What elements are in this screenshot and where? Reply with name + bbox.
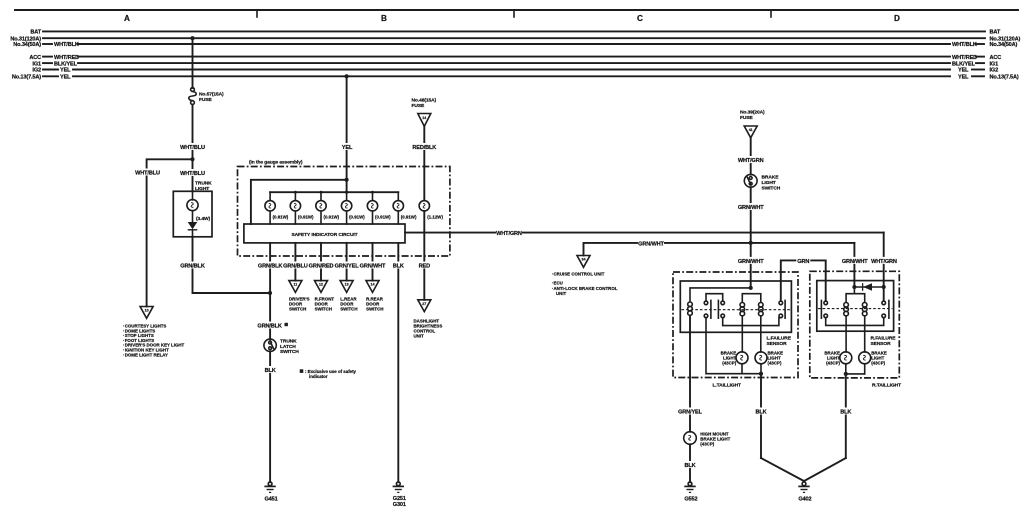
svg-text:LATCH: LATCH bbox=[280, 344, 296, 350]
label WHT/BLU (branch) bbox=[135, 169, 160, 177]
svg-text:SWITCH: SWITCH bbox=[289, 307, 306, 312]
R sensor GRN/WHT bracket bbox=[846, 294, 865, 302]
wire trunk light to GRN/BLK junction bbox=[193, 237, 271, 293]
svg-text:C: C bbox=[637, 14, 643, 23]
wire R taillight BLK down bbox=[845, 374, 847, 458]
svg-text:SWITCH: SWITCH bbox=[366, 307, 383, 312]
svg-text:(0.91W): (0.91W) bbox=[401, 214, 417, 219]
node junction on No.31 bus bbox=[190, 36, 194, 40]
connector arrow R.front door switch bbox=[315, 281, 335, 312]
wire RED output to dashlight unit bbox=[423, 211, 425, 300]
label BLK bbox=[263, 366, 277, 374]
svg-text:GRN/WHT: GRN/WHT bbox=[638, 242, 664, 248]
high mount brake light bbox=[684, 432, 731, 447]
R sensor switch right bbox=[882, 300, 889, 318]
svg-text:YEL: YEL bbox=[958, 68, 969, 74]
node YEL branch junction bbox=[345, 178, 349, 182]
label GRN/WHT above R box bbox=[842, 257, 868, 265]
svg-text:SAFETY INDICATOR CIRCUIT: SAFETY INDICATOR CIRCUIT bbox=[291, 232, 357, 238]
node R bulb bottom junction bbox=[844, 372, 848, 376]
R brake bulb 2 bbox=[859, 351, 887, 366]
brake light switch bbox=[744, 174, 780, 191]
wire GRN/BLU output bbox=[294, 243, 296, 281]
svg-text:FUSE: FUSE bbox=[412, 103, 425, 109]
R bulb 2 wire bbox=[864, 316, 866, 352]
L brake bulb 1 bbox=[721, 351, 748, 366]
svg-text:(43CP): (43CP) bbox=[871, 361, 885, 366]
indicator bulb 5 bbox=[367, 191, 391, 224]
svg-text:· DOME LIGHT RELAY: · DOME LIGHT RELAY bbox=[123, 352, 168, 357]
svg-text:(1.12W): (1.12W) bbox=[427, 214, 443, 219]
R sensor coil 1 bbox=[844, 303, 849, 316]
svg-text:R.FAILURE: R.FAILURE bbox=[871, 336, 897, 342]
diode in trunk light bbox=[188, 211, 198, 237]
diode in R sensor bbox=[854, 283, 883, 291]
label YEL bbox=[340, 143, 354, 151]
svg-text:ACC: ACC bbox=[990, 55, 1002, 61]
R sensor coil 2 bbox=[862, 303, 867, 316]
svg-text:No.13(7.5A): No.13(7.5A) bbox=[12, 75, 41, 81]
label WHT/GRN vertical bbox=[871, 257, 897, 265]
svg-text:WHT/RED: WHT/RED bbox=[54, 55, 79, 61]
svg-text:GRN/BLK: GRN/BLK bbox=[257, 324, 282, 330]
svg-text:SWITCH: SWITCH bbox=[280, 349, 299, 355]
wire fuse48 to bulb 7 bbox=[423, 126, 425, 200]
indicator bulb 2 bbox=[290, 191, 314, 224]
svg-text:RED/BLK: RED/BLK bbox=[412, 145, 436, 151]
svg-text:L.TAILLIGHT: L.TAILLIGHT bbox=[713, 382, 742, 388]
label WHT/GRN bbox=[738, 156, 764, 164]
svg-text:41: 41 bbox=[749, 128, 753, 132]
svg-text:(43CP): (43CP) bbox=[722, 361, 736, 366]
node GRN/BLK junction bbox=[268, 291, 272, 295]
indicator bulb 3 bbox=[316, 191, 340, 224]
wire branch left to courtesy feed bbox=[147, 159, 193, 306]
svg-text:IG1: IG1 bbox=[32, 61, 41, 67]
svg-text:GRN/WHT: GRN/WHT bbox=[842, 259, 868, 265]
node L bulb bottom junction bbox=[759, 372, 763, 376]
svg-text:GRN/BLK: GRN/BLK bbox=[180, 264, 205, 270]
indicator bulb 7 dashlight bbox=[419, 201, 443, 220]
node L sensor junction bbox=[749, 286, 753, 290]
R sensor bottom wire bbox=[826, 318, 884, 326]
L sensor top feed wire bbox=[690, 288, 751, 302]
svg-text:WHT/GRN: WHT/GRN bbox=[496, 231, 522, 237]
indicator bulb 4 bbox=[341, 192, 365, 224]
wire latch to ground G451 bbox=[269, 352, 271, 483]
svg-text:UNIT: UNIT bbox=[414, 334, 425, 339]
label GRN/BLK bbox=[180, 262, 205, 270]
label GRN/RED bbox=[309, 262, 334, 270]
R brake bulb 1 bbox=[824, 351, 851, 366]
wire brake switch to L sensor bbox=[750, 187, 752, 288]
svg-text:indicator: indicator bbox=[309, 374, 328, 379]
L sensor coil 1 bbox=[688, 302, 693, 315]
safety indicator circuit box bbox=[244, 224, 405, 243]
node WHT/BLU branch junction bbox=[190, 157, 194, 161]
trunk light box bbox=[173, 191, 212, 237]
label BLK bbox=[839, 408, 853, 416]
svg-text:GRN: GRN bbox=[797, 259, 809, 265]
R bulb 1 wire bbox=[845, 316, 847, 352]
fuse No.39(20A) label bbox=[740, 110, 765, 121]
ground G451 bbox=[264, 482, 277, 503]
wire YEL branch to safety circuit bbox=[251, 180, 347, 224]
svg-text:GRN/YEL: GRN/YEL bbox=[678, 410, 703, 416]
ground G402 bbox=[798, 482, 811, 503]
svg-text:WHT/BLK: WHT/BLK bbox=[952, 42, 977, 48]
wire L taillight BLK down bbox=[760, 374, 762, 458]
svg-text:SENSOR: SENSOR bbox=[767, 341, 788, 347]
label GRN/BLU bbox=[283, 262, 308, 270]
L sensor coil 2 bbox=[740, 303, 745, 316]
svg-text:(43CP): (43CP) bbox=[826, 361, 840, 366]
svg-text:BLK: BLK bbox=[265, 368, 276, 374]
L sensor switch 2 bbox=[779, 300, 785, 318]
label GRN/WHT bbox=[360, 262, 386, 270]
svg-text:GRN/YEL: GRN/YEL bbox=[335, 264, 360, 270]
svg-text:(In the gauge assembly): (In the gauge assembly) bbox=[249, 160, 303, 166]
R sensor switch left bbox=[821, 300, 827, 318]
bus wire ACC WHT/RED bbox=[29, 55, 1001, 61]
L bulb 1 wire bbox=[741, 316, 743, 352]
label R.FAILURE SENSOR bbox=[871, 336, 897, 347]
R bulb bottom bus bbox=[845, 364, 847, 374]
indicator bulb 1 bbox=[265, 192, 289, 224]
svg-text:GRN/BLU: GRN/BLU bbox=[283, 264, 308, 270]
svg-text:B: B bbox=[381, 14, 387, 23]
wire GRN/BLK output bbox=[269, 243, 271, 340]
L sensor GRN/WHT bracket bbox=[742, 294, 761, 302]
svg-text:· CRUISE CONTROL UNIT: · CRUISE CONTROL UNIT bbox=[552, 271, 605, 276]
L bulb bottom bus bbox=[741, 364, 743, 374]
wire GRN/WHT output bbox=[372, 243, 374, 281]
svg-text:GRN/RED: GRN/RED bbox=[309, 264, 334, 270]
L sensor connector dashed line bbox=[682, 309, 791, 311]
wire from No.31 bus down to fuse No.57 bbox=[192, 38, 194, 88]
svg-text:(0.91W): (0.91W) bbox=[298, 214, 314, 219]
label BLK bbox=[683, 461, 697, 469]
svg-text:BLK: BLK bbox=[755, 410, 766, 416]
L sensor switch 1 bbox=[704, 294, 724, 319]
R sensor connector dashed line bbox=[818, 308, 892, 310]
svg-text:GRN/WHT: GRN/WHT bbox=[360, 264, 386, 270]
svg-text:No.48(15A): No.48(15A) bbox=[412, 98, 437, 104]
bus wire IG2 YEL bbox=[32, 68, 998, 74]
gauge assembly dashed box bbox=[238, 167, 450, 257]
svg-text:(0.91W): (0.91W) bbox=[273, 214, 289, 219]
top border ruler line bbox=[15, 10, 1018, 17]
svg-text:UNIT: UNIT bbox=[556, 291, 567, 296]
svg-text:WHT/BLU: WHT/BLU bbox=[180, 145, 205, 151]
wire fuse57 to WHT/BLU junction bbox=[192, 105, 194, 160]
svg-text:No.34(50A): No.34(50A) bbox=[990, 42, 1018, 48]
label WHT/BLU bbox=[180, 143, 205, 151]
label RED/BLK bbox=[412, 143, 436, 151]
svg-text:TRUNK: TRUNK bbox=[280, 339, 297, 345]
bus wire BAT bbox=[30, 30, 1001, 36]
connector arrow cruise control bbox=[577, 256, 590, 268]
connector arrow driver's door switch bbox=[289, 281, 310, 312]
trunk latch switch bbox=[264, 339, 299, 356]
ground G552 bbox=[684, 482, 697, 503]
svg-text:IG2: IG2 bbox=[32, 68, 41, 74]
svg-text:FUSE: FUSE bbox=[740, 115, 753, 121]
svg-text:BRAKE: BRAKE bbox=[762, 175, 780, 181]
svg-text:34: 34 bbox=[582, 258, 586, 262]
svg-text:D: D bbox=[894, 14, 900, 23]
courtesy lights list bbox=[123, 324, 185, 358]
svg-text:L.FAILURE: L.FAILURE bbox=[767, 336, 792, 342]
svg-text:R.TAILLIGHT: R.TAILLIGHT bbox=[872, 382, 901, 388]
svg-text:(3.4W): (3.4W) bbox=[196, 216, 211, 222]
label GRN bbox=[796, 257, 810, 265]
svg-text:ACC: ACC bbox=[29, 55, 41, 61]
svg-text:12: 12 bbox=[319, 283, 323, 287]
bulb top bus in gauge bbox=[270, 191, 398, 193]
wire WHT/GRN down into R sensor bbox=[883, 233, 885, 301]
L taillight dashed box bbox=[673, 272, 798, 378]
label GRN/WHT bbox=[738, 203, 764, 211]
svg-text:BAT: BAT bbox=[990, 30, 1001, 36]
svg-text:BLK: BLK bbox=[393, 264, 404, 270]
L failure sensor box bbox=[680, 281, 791, 332]
svg-text:No.39(20A): No.39(20A) bbox=[740, 110, 765, 116]
svg-text:WHT/BLU: WHT/BLU bbox=[180, 171, 205, 177]
wire BLK output to ground bbox=[397, 243, 399, 482]
label L.FAILURE SENSOR bbox=[767, 336, 792, 347]
trunk light label bbox=[195, 181, 212, 193]
L sensor bottom wire 2 bbox=[723, 318, 781, 326]
connector arrow courtesy lights feed bbox=[140, 307, 153, 319]
svg-text:SWITCH: SWITCH bbox=[340, 307, 357, 312]
svg-text:BAT: BAT bbox=[30, 30, 41, 36]
L sensor bottom wire 1 bbox=[706, 318, 761, 374]
node cruise line junction bbox=[749, 241, 753, 245]
label WHT/GRN bbox=[496, 229, 522, 237]
wire GRN/RED output bbox=[320, 243, 322, 281]
fuse No.57(15A) bbox=[189, 88, 224, 105]
svg-text:(0.91W): (0.91W) bbox=[349, 214, 365, 219]
svg-text:G301: G301 bbox=[393, 502, 406, 508]
connector arrow L.rear door switch bbox=[340, 281, 357, 312]
wire V to ground G402 bbox=[761, 458, 846, 481]
svg-text:FUSE: FUSE bbox=[199, 97, 212, 103]
svg-text:SWITCH: SWITCH bbox=[315, 307, 332, 312]
label GRN/WHT on cruise line bbox=[638, 239, 665, 247]
svg-text:YEL: YEL bbox=[60, 75, 71, 81]
svg-text:BLK: BLK bbox=[840, 410, 851, 416]
wire WHT/GRN from safety circuit to right bbox=[405, 232, 884, 234]
wire L coil1 to high mount bbox=[689, 315, 691, 431]
svg-text:BLK/YEL: BLK/YEL bbox=[54, 61, 78, 67]
label GRN/YEL bbox=[678, 408, 703, 416]
label BLK bbox=[391, 262, 405, 270]
svg-text:BLK: BLK bbox=[684, 463, 695, 469]
connector arrow dashlight brightness control unit bbox=[414, 300, 443, 339]
wire GRN/YEL output bbox=[346, 243, 348, 281]
node on bulb bus bbox=[345, 191, 348, 194]
indicator bulb 6 bbox=[393, 192, 417, 224]
svg-text:WHT/BLK: WHT/BLK bbox=[54, 42, 79, 48]
label GRN/WHT above L box bbox=[738, 257, 764, 265]
svg-text:G552: G552 bbox=[684, 497, 697, 503]
L bulb 2 wire bbox=[760, 316, 762, 352]
wire YEL to bulb bus bbox=[346, 180, 348, 192]
bus wire No.31(120A) bbox=[10, 36, 1020, 42]
svg-text:YEL: YEL bbox=[60, 68, 71, 74]
svg-text:LIGHT: LIGHT bbox=[762, 180, 776, 186]
L sensor coil 3 bbox=[759, 303, 764, 316]
svg-text:YEL: YEL bbox=[958, 75, 969, 81]
svg-text:WHT/BLU: WHT/BLU bbox=[135, 171, 160, 177]
svg-text:(43CP): (43CP) bbox=[700, 442, 714, 447]
wire high mount to ground bbox=[689, 444, 691, 482]
cruise control list bbox=[552, 271, 618, 296]
bus wire No.13(7.5A) YEL bbox=[12, 75, 1019, 81]
note exclusive use bbox=[300, 369, 357, 379]
ground G251 G301 bbox=[393, 482, 406, 508]
node R sensor diode junction bbox=[852, 285, 856, 289]
svg-text:A: A bbox=[124, 14, 130, 23]
svg-text:SENSOR: SENSOR bbox=[871, 341, 892, 347]
label GRN/BLK bbox=[258, 262, 283, 270]
svg-text:No.34(50A): No.34(50A) bbox=[13, 42, 41, 48]
wire YEL drop to gauge assembly bbox=[346, 76, 348, 180]
label WHT/BLU (below junction) bbox=[180, 169, 205, 177]
R taillight dashed box bbox=[810, 271, 900, 378]
svg-text:(0.91W): (0.91W) bbox=[375, 214, 391, 219]
label RED bbox=[417, 262, 431, 270]
svg-text:GRN/BLK: GRN/BLK bbox=[258, 264, 283, 270]
svg-text:14: 14 bbox=[422, 116, 426, 120]
svg-text:G451: G451 bbox=[264, 497, 277, 503]
svg-text:10: 10 bbox=[145, 309, 149, 313]
svg-text:No.13(7.5A): No.13(7.5A) bbox=[990, 75, 1019, 81]
wire down to trunk light bbox=[192, 159, 194, 191]
wire fuse39 to brake light switch bbox=[750, 138, 752, 175]
node WHT/GRN diode junction bbox=[882, 285, 886, 289]
R failure sensor box bbox=[817, 281, 894, 332]
svg-text:TRUNK: TRUNK bbox=[195, 181, 212, 187]
svg-text:13: 13 bbox=[345, 283, 349, 287]
svg-text:G402: G402 bbox=[798, 497, 811, 503]
svg-text:IG2: IG2 bbox=[990, 68, 999, 74]
svg-text:(0.91W): (0.91W) bbox=[324, 214, 340, 219]
bus wire No.34(50A) WHT/BLK bbox=[13, 42, 1017, 48]
svg-text:RED: RED bbox=[419, 264, 430, 270]
svg-text:27: 27 bbox=[422, 302, 426, 306]
svg-text:WHT/GRN: WHT/GRN bbox=[738, 158, 764, 164]
svg-text:IG1: IG1 bbox=[990, 61, 999, 67]
label BLK bbox=[754, 408, 768, 416]
svg-text:11: 11 bbox=[293, 283, 297, 287]
svg-text:GRN/WHT: GRN/WHT bbox=[738, 259, 764, 265]
node junction on No.13 YEL bus bbox=[345, 74, 349, 78]
svg-text:SWITCH: SWITCH bbox=[762, 185, 781, 191]
svg-text:YEL: YEL bbox=[342, 145, 353, 151]
svg-text:No.57(15A): No.57(15A) bbox=[199, 92, 224, 98]
label GRN/YEL bbox=[334, 262, 359, 270]
svg-text:(43CP): (43CP) bbox=[768, 361, 782, 366]
label GRN/BLK second bbox=[257, 322, 288, 330]
wire GRN link L to R bbox=[781, 260, 826, 301]
svg-text:WHT/GRN: WHT/GRN bbox=[871, 259, 897, 265]
fuse No.48(15A) connector arrow bbox=[412, 98, 437, 127]
svg-text:14: 14 bbox=[371, 283, 375, 287]
connector arrow R.rear door switch bbox=[366, 281, 384, 312]
trunk light bulb bbox=[187, 191, 211, 222]
wire GRN/WHT cruise line bbox=[584, 243, 855, 256]
bus wire IG1 BLK/YEL bbox=[32, 61, 998, 67]
connector arrow fuse No.39 bbox=[744, 126, 757, 138]
L brake bulb 2 bbox=[755, 351, 783, 366]
svg-text:GRN/WHT: GRN/WHT bbox=[738, 205, 764, 211]
svg-text:BLK/YEL: BLK/YEL bbox=[952, 61, 976, 67]
wire GRN/WHT down to R sensor bracket bbox=[853, 243, 855, 287]
svg-text:WHT/RED: WHT/RED bbox=[952, 55, 977, 61]
